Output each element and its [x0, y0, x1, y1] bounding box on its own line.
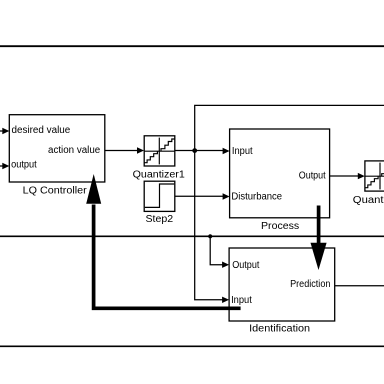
svg-text:Process: Process	[261, 221, 299, 232]
wire Quantizer1 to Process Input	[175, 150, 224, 152]
svg-text:Input: Input	[231, 295, 252, 306]
wire branch up and right to edge	[195, 105, 384, 150]
annotation arrow Identification to LQ Controller	[94, 205, 241, 309]
wire bottom feedback line	[0, 345, 384, 347]
wire branch down to Identification Input	[195, 151, 224, 300]
block Identification	[229, 248, 335, 321]
wire Process Output to Quantizer2	[330, 175, 359, 177]
block Quantizer2	[365, 161, 384, 191]
wire desired value input	[0, 130, 4, 132]
wire Prediction output	[335, 285, 384, 287]
svg-text:Output: Output	[232, 260, 259, 271]
svg-text:LQ Controller: LQ Controller	[23, 185, 88, 196]
svg-text:desired value: desired value	[12, 125, 71, 136]
svg-text:Identification: Identification	[249, 324, 310, 335]
wire Step2 to Process Disturbance	[175, 195, 224, 197]
wire middle feedback line	[0, 235, 384, 237]
svg-text:Input: Input	[232, 146, 253, 157]
svg-text:Step2: Step2	[146, 214, 174, 225]
wire top feedback line	[0, 45, 384, 47]
wire action value LQ to Quantizer1	[105, 150, 138, 152]
block LQ Controller	[9, 115, 105, 182]
svg-text:Prediction: Prediction	[290, 279, 330, 290]
block Process	[230, 129, 330, 218]
block Step2	[144, 181, 175, 211]
wire branch to Identification Output	[210, 236, 224, 264]
svg-text:output: output	[11, 160, 37, 171]
svg-text:Quantizer2: Quantizer2	[353, 195, 384, 206]
junction node quantizer output	[192, 148, 197, 153]
svg-text:Quantizer1: Quantizer1	[133, 170, 186, 181]
block Quantizer1	[144, 136, 175, 166]
svg-text:Output: Output	[299, 170, 326, 181]
svg-text:action value: action value	[48, 145, 101, 156]
annotation arrow Process to Identification	[317, 206, 321, 245]
junction node mid feedback	[208, 234, 212, 238]
wire output input	[0, 165, 4, 167]
svg-text:Disturbance: Disturbance	[231, 192, 282, 203]
